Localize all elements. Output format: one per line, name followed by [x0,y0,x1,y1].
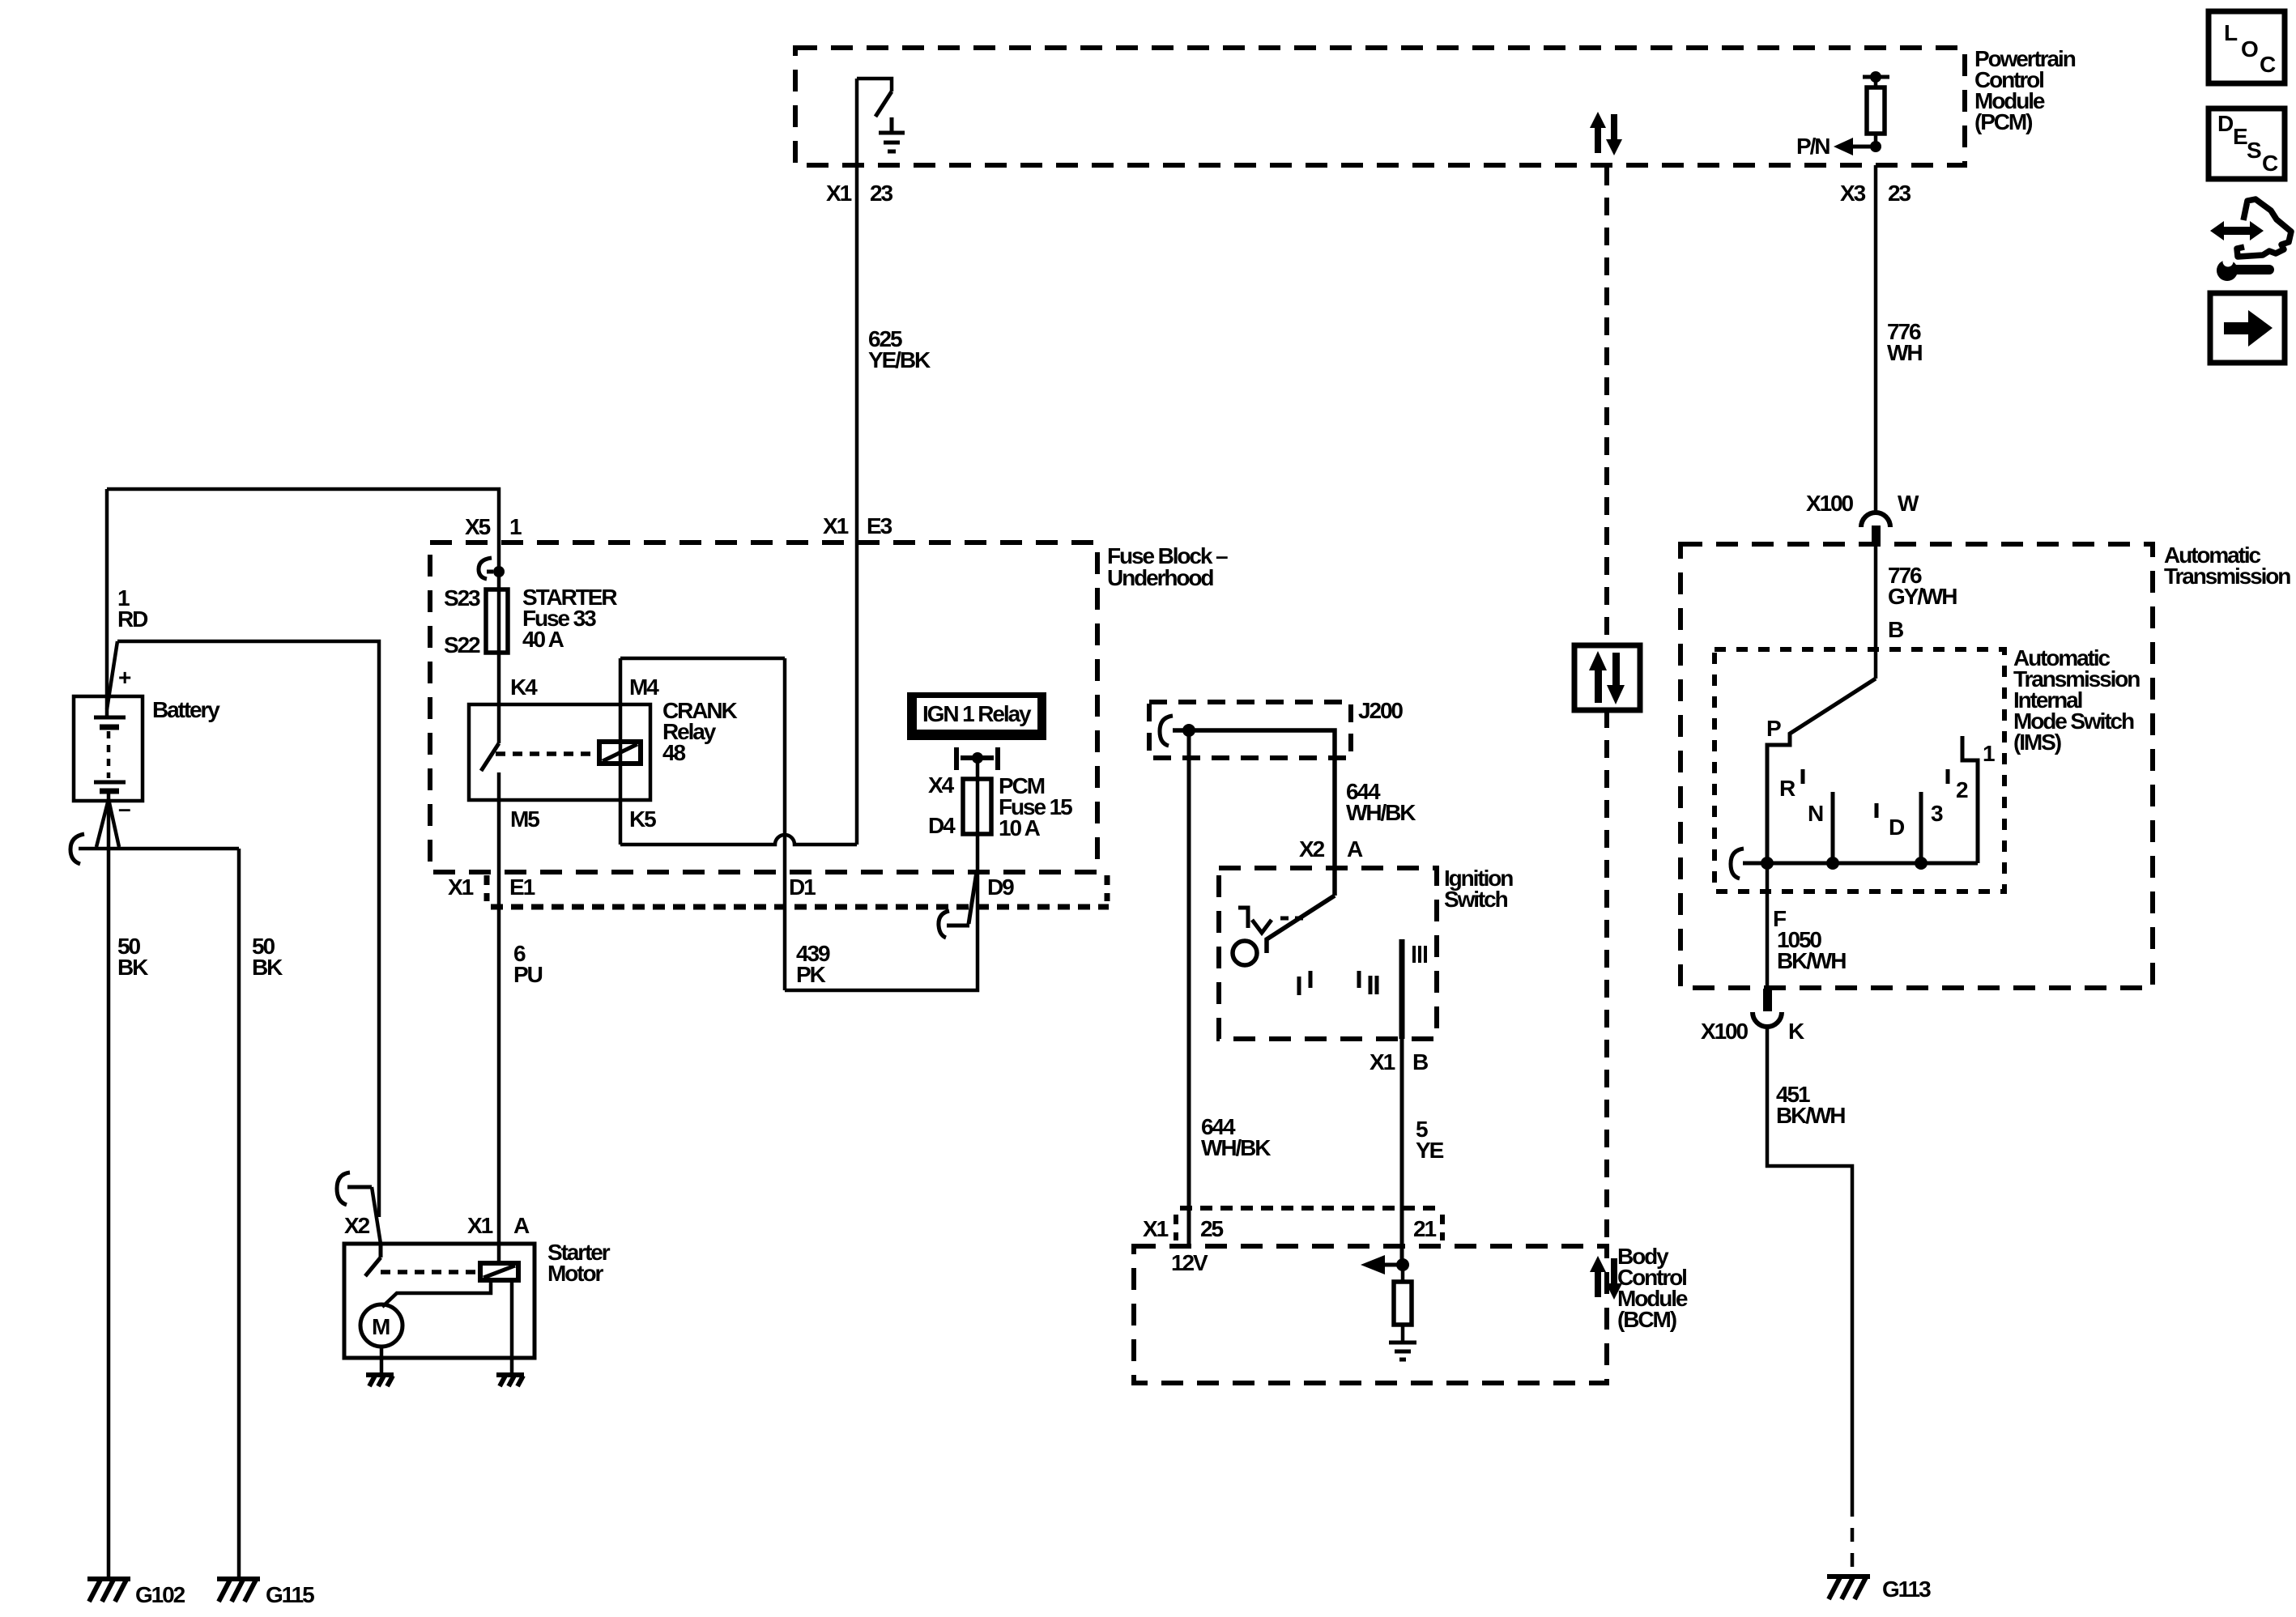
switch box IMS [1715,649,2004,891]
pin label X3 23 [1840,181,1910,206]
svg-text:WH/BK: WH/BK [1201,1135,1271,1160]
svg-text:X3: X3 [1840,181,1866,206]
label IMS name [2013,645,2140,755]
svg-text:P/N: P/N [1796,134,1830,159]
label Automatic Transmission [2164,543,2290,589]
wire 776 GY/WH [1874,544,1878,679]
relay coil link (dashed) [496,751,599,756]
connector sockets below IGN 1 Relay [956,747,998,770]
svg-text:B: B [1888,617,1903,642]
svg-text:IGN 1 Relay: IGN 1 Relay [922,701,1032,726]
svg-text:+: + [118,665,131,690]
wire 50 BK to G115 [237,849,241,1579]
svg-text:M5: M5 [510,806,539,832]
connector clip at S23 [479,558,492,579]
icon DESC box [2209,109,2285,179]
wire 1050 BK/WH [1766,863,1770,989]
pin label X1 E1 [448,874,535,900]
wire 5 YE ignition to BCM [1400,1039,1404,1265]
svg-text:J200: J200 [1358,698,1403,723]
svg-text:(IMS): (IMS) [2013,730,2061,755]
resistor inside BCM [1394,1265,1412,1343]
svg-text:X5: X5 [465,514,491,539]
label BCM name [1617,1244,1688,1332]
svg-text:YE/BK: YE/BK [868,347,931,372]
svg-text:Transmission: Transmission [2164,564,2290,589]
arrow BCM signal [1361,1255,1403,1274]
svg-text:WH: WH [1887,340,1922,365]
svg-text:PK: PK [796,962,826,987]
label Fuse Block name [1107,543,1228,590]
module box Fuse Block Underhood [430,543,1097,872]
relay switch blade [481,743,499,771]
relay CRANK Relay 48 outline box [620,658,857,845]
svg-text:25: 25 [1200,1216,1223,1241]
IMS wiper from B to P [1767,679,1876,863]
ground inside BCM [1389,1343,1416,1360]
connector clip at IMS common [1731,849,1744,879]
wire battery feed to X5-1 [107,489,499,543]
svg-text:PU: PU [513,962,543,987]
icon hand with wrench [2210,199,2291,281]
svg-text:C: C [2260,52,2276,77]
svg-text:BK/WH: BK/WH [1777,948,1846,973]
value label PCM Fuse 15 10 A [999,773,1072,840]
svg-text:K: K [1788,1019,1804,1044]
double arrow symbol inside BCM [1590,1256,1622,1300]
wire 1 RD to starter solenoid [107,641,379,1217]
svg-text:X100: X100 [1701,1019,1749,1044]
node S23 junction [493,566,505,577]
splice battery negative [79,799,239,849]
svg-text:K5: K5 [629,806,656,832]
value label 625 YE/BK [868,326,931,372]
connector clip at battery negative [70,834,84,864]
P/N arrow [1796,134,1876,159]
double arrow symbol inside PCM [1590,112,1622,155]
wire battery negative down to G102 [107,801,111,1579]
svg-text:23: 23 [870,181,892,206]
connector strip X1 (BCM, dotted) [1176,1208,1442,1240]
IMS contact 1 [1962,736,1978,863]
pin label X1 B [1370,1049,1428,1074]
svg-text:S: S [2247,138,2261,163]
svg-text:A: A [1347,836,1363,862]
svg-text:K4: K4 [510,674,538,700]
value label 1 RD (riser) [117,585,148,632]
svg-text:X1: X1 [826,181,852,206]
svg-text:G102: G102 [135,1582,185,1607]
IMS contact R [1801,769,1805,784]
value label 644 WH/BK (lower) [1201,1114,1271,1160]
pin label X1 E3 (fuse block) [823,513,892,538]
wire J200 to ignition switch [1173,730,1335,896]
ignition switch rotor contact [1233,941,1257,965]
svg-text:E1: E1 [509,874,535,900]
relay label box IGN 1 Relay [907,692,1046,740]
svg-text:BK: BK [252,955,283,980]
svg-text:Underhood: Underhood [1107,565,1213,590]
value label 50 BK (right) [252,934,283,980]
label CRANK Relay 48 [662,698,737,765]
ground G115 [217,1579,260,1602]
relay coil [599,742,641,764]
svg-text:M: M [372,1314,390,1339]
node IGN1 relay output [972,752,983,764]
wire 1 RD battery positive riser [105,489,109,717]
svg-text:1: 1 [509,514,522,539]
node J200 [1182,724,1195,737]
svg-text:BK/WH: BK/WH [1776,1103,1845,1128]
svg-text:Battery: Battery [152,697,220,722]
wire serial data (dashed) [1604,168,1609,1246]
wire 644 WH/BK J200 to BCM [1187,730,1191,1246]
svg-text:D1: D1 [789,874,816,900]
svg-text:X2: X2 [344,1213,370,1238]
module box PCM [795,48,1965,165]
ground inside PCM [879,117,905,151]
ground at starter motor (left) [366,1375,394,1386]
node IMS 3 [1915,857,1928,870]
wire motor to ground [380,1347,384,1375]
svg-text:P: P [1766,716,1781,741]
connector X100 pin W [1806,491,1919,547]
svg-text:Motor: Motor [547,1261,603,1286]
value label 451 BK/WH [1776,1082,1845,1128]
pin label X5 1 [465,514,522,539]
ground at starter solenoid (right) [496,1375,524,1386]
svg-text:S22: S22 [444,632,480,657]
svg-text:C: C [2262,151,2278,176]
ignition position mark I [1299,971,1310,995]
node P/N junction [1870,141,1881,152]
wire 776 WH PCM X3-23 down [1874,165,1878,513]
svg-text:X1: X1 [467,1213,493,1238]
value label 1050 BK/WH [1777,927,1846,973]
svg-text:12V: 12V [1171,1250,1208,1275]
wire PCM internal to switch [857,79,892,91]
pin label X1 25 [1143,1216,1223,1241]
fuse STARTER Fuse 33 40A [486,589,508,653]
wire main feed inside fuse block [497,543,501,743]
svg-text:WH/BK: WH/BK [1346,800,1416,825]
svg-text:–: – [118,796,130,821]
wire 625 YE/BK [855,79,859,845]
module box BCM [1134,1246,1607,1383]
starter solenoid coil [480,1263,518,1280]
svg-text:D: D [1889,815,1905,840]
node IMS N [1826,857,1839,870]
svg-text:X1: X1 [823,513,849,538]
svg-text:B: B [1412,1049,1428,1074]
IMS contact 2 [1946,769,1950,784]
in-line connector at D9 [939,871,977,938]
svg-text:X1: X1 [1143,1216,1169,1241]
pin label X1 A [467,1213,530,1238]
svg-text:48: 48 [662,740,685,765]
value label 50 BK (left) [117,934,148,980]
svg-text:40 A: 40 A [522,627,564,652]
svg-text:YE: YE [1416,1138,1444,1163]
connector X100 pin K [1701,989,1804,1044]
IMS contact 3 [1919,792,1923,863]
node IMS P [1761,857,1774,870]
value label 5 YE [1416,1117,1444,1163]
svg-text:BK: BK [117,955,148,980]
svg-text:X4: X4 [928,772,955,798]
pin label X2 A [1299,836,1363,862]
label Starter Motor [547,1240,611,1286]
svg-text:O: O [2241,36,2258,62]
svg-text:N: N [1808,801,1823,826]
icon LOC box [2209,11,2285,83]
ignition contact B [1399,939,1405,1039]
svg-text:23: 23 [1888,181,1910,206]
svg-text:W: W [1898,491,1919,516]
module box Automatic Transmission [1680,544,2153,988]
resistor inside PCM (X3-23 pull-up) [1863,71,1889,147]
starter switch blade [365,1244,381,1276]
relay switch box [469,704,650,800]
svg-text:X2: X2 [1299,836,1325,862]
svg-text:S23: S23 [444,585,480,611]
wire 439 PK : crank relay D1 to PCM fuse D9 [785,834,978,990]
ignition switch blade [1267,896,1335,953]
svg-text:2: 2 [1956,777,1968,802]
IMS contact D [1875,803,1879,818]
connector clip in J200 [1160,716,1173,746]
ignition position mark III [1414,946,1425,963]
ground G113 [1827,1577,1870,1599]
label PCM name [1974,46,2076,134]
ground G102 [87,1579,130,1602]
svg-text:D: D [2217,111,2234,136]
svg-text:GY/WH: GY/WH [1888,584,1957,609]
svg-text:E: E [2233,124,2247,149]
value label 439 PK [796,941,830,987]
svg-text:X1: X1 [448,874,474,900]
svg-text:D4: D4 [928,813,956,838]
svg-text:E3: E3 [867,513,892,538]
value label 776 WH [1887,319,1922,365]
value label 6 PU [513,941,543,987]
pin label X1 23 (PCM) [826,181,892,206]
svg-text:(BCM): (BCM) [1617,1307,1676,1332]
svg-text:G113: G113 [1882,1577,1931,1602]
IMS contact N [1831,792,1835,863]
svg-text:X100: X100 [1806,491,1854,516]
splice pack J200 box [1149,702,1351,758]
value label 776 GY/WH [1888,563,1957,609]
boxed double arrow symbol on serial data line [1574,645,1640,710]
switch blade inside PCM [875,91,892,117]
svg-text:X1: X1 [1370,1049,1395,1074]
wire solenoid coil to ground [510,1280,514,1375]
svg-text:10 A: 10 A [999,815,1041,840]
svg-text:M4: M4 [629,674,659,700]
relay switch lower contact [497,772,501,800]
svg-text:D9: D9 [987,874,1014,900]
svg-text:G115: G115 [266,1582,314,1607]
value label STARTER Fuse 33 40 A [522,585,617,652]
svg-text:Switch: Switch [1444,887,1508,912]
motor M [360,1304,403,1347]
svg-text:1: 1 [1983,741,1995,766]
switch Ignition Switch box [1219,868,1437,1039]
wire 6 PU to starter [497,800,501,1263]
svg-text:R: R [1779,776,1795,801]
icon forward arrow box [2210,293,2285,363]
ignition position mark II [1359,971,1377,994]
value label 644 WH/BK (upper) [1346,779,1416,825]
connector strip X1 (dotted) [487,875,1109,907]
battery [74,665,143,821]
svg-text:3: 3 [1931,801,1943,826]
IMS common bar [1743,862,1978,866]
ignition position mark ACC [1238,908,1303,933]
starter motor box [344,1244,535,1358]
svg-text:(PCM): (PCM) [1974,109,2032,134]
node BCM input 21 [1396,1258,1409,1271]
svg-text:L: L [2224,20,2238,45]
wire IGN1 relay to PCM fuse [976,758,980,779]
wire solenoid to motor [382,1280,491,1307]
svg-text:RD: RD [117,606,148,632]
wire 451 BK/WH [1767,1025,1852,1574]
in-line connector at starter X2 [337,1172,381,1244]
svg-text:21: 21 [1413,1216,1436,1241]
fuse PCM Fuse 15 10A [963,779,991,834]
label Ignition Switch [1444,866,1513,912]
starter solenoid link (dashed) [381,1270,480,1274]
svg-text:A: A [513,1213,530,1238]
